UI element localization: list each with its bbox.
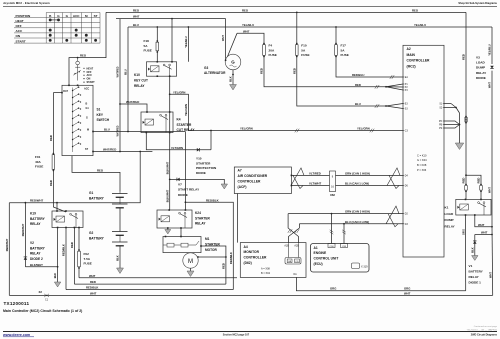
svg-text:M1: M1 bbox=[205, 237, 210, 241]
svg-text:CONTROLLER: CONTROLLER bbox=[238, 180, 262, 184]
svg-text:RED/WHT: RED/WHT bbox=[30, 199, 44, 203]
svg-text:DUMP: DUMP bbox=[445, 218, 454, 222]
K24 ground bbox=[167, 228, 169, 230]
svg-text:PB: PB bbox=[439, 125, 443, 127]
svg-text:G2: G2 bbox=[89, 231, 93, 235]
svg-text:DIODE 2: DIODE 2 bbox=[30, 257, 43, 261]
A2 ground bbox=[455, 143, 464, 150]
wire RED drop to key switch rotary bbox=[69, 12, 106, 85]
svg-text:DIODE 1: DIODE 1 bbox=[469, 281, 482, 285]
svg-text:BATTERY: BATTERY bbox=[89, 236, 105, 240]
svg-text:V7: V7 bbox=[178, 183, 182, 187]
svg-text:WHT/RED: WHT/RED bbox=[118, 66, 120, 77]
svg-text:FUSE: FUSE bbox=[269, 53, 277, 57]
svg-text:STARTER: STARTER bbox=[196, 161, 211, 165]
svg-text:ON: ON bbox=[16, 34, 21, 38]
A4 internal connector bbox=[288, 244, 290, 258]
wire RED/BLK from K19 down bbox=[65, 228, 67, 290]
svg-text:WHT: WHT bbox=[221, 35, 225, 41]
wire BLU from F10 fan to pins E3 S3 bbox=[297, 57, 386, 107]
svg-text:VLT/RED: VLT/RED bbox=[309, 171, 321, 175]
svg-text:RELAY: RELAY bbox=[30, 222, 41, 226]
svg-text:AIR CONDITIONER: AIR CONDITIONER bbox=[238, 174, 268, 178]
svg-text:ALTERNATOR: ALTERNATOR bbox=[204, 71, 226, 75]
svg-text:RED: RED bbox=[222, 263, 226, 269]
svg-text:WHT: WHT bbox=[133, 15, 140, 19]
wire WHT/RED junction to battery relay drop bbox=[139, 151, 141, 153]
svg-text:BAT: BAT bbox=[63, 90, 68, 93]
wire WHT to alternator bbox=[225, 19, 227, 61]
svg-text:TX1200011: TX1200011 bbox=[4, 301, 30, 306]
svg-text:B = X02: B = X02 bbox=[261, 272, 271, 275]
svg-text:PO: PO bbox=[439, 121, 443, 123]
svg-text:YEL/GRN: YEL/GRN bbox=[357, 127, 370, 131]
svg-text:DIODE: DIODE bbox=[476, 76, 486, 80]
battery relay diode V2 bbox=[24, 203, 26, 267]
wire RED top bus bbox=[106, 11, 466, 13]
key cut relay K10 box bbox=[147, 62, 177, 76]
svg-text:YEL/BLU: YEL/BLU bbox=[414, 23, 426, 27]
wire YEL/BLU drop to F17 bbox=[335, 27, 337, 44]
svg-text:RED/BLK: RED/BLK bbox=[62, 244, 66, 256]
svg-text:YEL/GRN: YEL/GRN bbox=[240, 127, 253, 131]
svg-text:Main Controller (MC2) Circuit: Main Controller (MC2) Circuit Schematic … bbox=[3, 309, 82, 313]
wire RED right vertical to K1 bbox=[465, 12, 467, 184]
svg-text:G: G bbox=[231, 60, 235, 65]
svg-text:START RELAY: START RELAY bbox=[178, 188, 200, 192]
svg-text:MAIN: MAIN bbox=[407, 53, 416, 57]
wire RED from F4 fan to pins P1 P2 P3 bbox=[264, 57, 386, 87]
svg-text:ST: ST bbox=[85, 148, 89, 151]
svg-text:BLU: BLU bbox=[355, 102, 361, 106]
table contact dots START row bbox=[49, 39, 52, 42]
svg-text:BLK/WHT: BLK/WHT bbox=[165, 189, 169, 202]
wire RED/BLU from F17 to pin EA bbox=[336, 57, 403, 78]
wire WHT drop to starter cut relay coil bbox=[119, 19, 121, 152]
svg-text:FUSE: FUSE bbox=[84, 262, 92, 266]
V7 ground bbox=[221, 184, 228, 189]
load dump relay diode V3 bbox=[490, 66, 494, 69]
svg-text:K10: K10 bbox=[134, 73, 140, 77]
starter motor M1 armature bbox=[183, 253, 198, 268]
K19 ground column bbox=[57, 228, 59, 283]
svg-text:EA: EA bbox=[405, 76, 409, 79]
connector X62 bbox=[330, 171, 336, 192]
svg-text:ORG: ORG bbox=[404, 287, 410, 291]
svg-text:Joystick MC2 - Electrical Syst: Joystick MC2 - Electrical System bbox=[3, 1, 50, 5]
A2 right pins PO PB PS merge to ground bbox=[444, 121, 460, 125]
wire GRN CAN3 HIGH bbox=[288, 213, 403, 215]
svg-text:(ECU): (ECU) bbox=[314, 262, 323, 266]
wire WHT exciter bus bbox=[116, 18, 226, 20]
A7 pins to X62 bbox=[291, 175, 293, 177]
svg-text:RED/BLK: RED/BLK bbox=[229, 252, 233, 264]
svg-text:WHT: WHT bbox=[488, 272, 492, 278]
svg-text:WHT: WHT bbox=[488, 187, 492, 193]
svg-text:LOAD: LOAD bbox=[445, 212, 455, 216]
svg-text:BLU: BLU bbox=[124, 69, 128, 75]
fuse F4 bbox=[263, 43, 265, 45]
wire BLK/WHT from V2 to ground column bbox=[25, 266, 57, 268]
page header rule bbox=[3, 5, 497, 7]
svg-text:G3: G3 bbox=[204, 66, 208, 70]
svg-text:B: B bbox=[86, 103, 88, 106]
footer rule bbox=[3, 331, 497, 333]
wire WHT right vertical to bus bbox=[491, 227, 494, 296]
wire BLU drop to F18 bbox=[156, 27, 158, 41]
svg-text:ORG: ORG bbox=[461, 229, 465, 235]
svg-text:RELAY: RELAY bbox=[30, 252, 41, 256]
svg-text:Continued on next page: Continued on next page bbox=[474, 325, 498, 328]
svg-text:BLU (CAN 3 LOW): BLU (CAN 3 LOW) bbox=[345, 220, 369, 224]
svg-text:RED: RED bbox=[49, 135, 53, 141]
svg-text:WHT/RED: WHT/RED bbox=[126, 100, 139, 104]
wire GRN CAN1 HIGH bbox=[336, 174, 404, 176]
fuse F01 bbox=[53, 153, 55, 155]
table contact dots ON row bbox=[49, 34, 52, 37]
svg-text:A7: A7 bbox=[238, 168, 242, 172]
svg-text:TX1200011 — UN — 19APR10: TX1200011 — UN — 19APR10 bbox=[467, 328, 498, 331]
svg-text:F4: F4 bbox=[269, 44, 273, 48]
wire BLU CAN1 LOW bbox=[336, 185, 404, 187]
K1 feed connector pins bbox=[465, 184, 467, 186]
table contact dots HEAT row bbox=[50, 19, 58, 21]
svg-text:CD: CD bbox=[295, 261, 299, 263]
wire WHT from V3 down bbox=[491, 71, 493, 227]
svg-text:ST: ST bbox=[94, 14, 98, 18]
svg-text:RED: RED bbox=[242, 8, 248, 12]
svg-text:BATTERY: BATTERY bbox=[30, 217, 46, 221]
svg-text:WHT: WHT bbox=[488, 82, 492, 88]
svg-text:WHT: WHT bbox=[481, 231, 488, 235]
svg-text:RED: RED bbox=[90, 280, 96, 284]
svg-text:V2: V2 bbox=[30, 241, 34, 245]
svg-text:RED: RED bbox=[49, 180, 53, 186]
svg-text:RED: RED bbox=[355, 83, 361, 87]
svg-text:DA: DA bbox=[294, 273, 298, 276]
svg-text:M: M bbox=[188, 259, 193, 265]
svg-text:BLU (CAN 1 LOW): BLU (CAN 1 LOW) bbox=[345, 182, 369, 186]
S1 BLU output wire bbox=[92, 131, 94, 133]
svg-text:BLK: BLK bbox=[229, 76, 233, 82]
svg-text:B = K08: B = K08 bbox=[417, 163, 427, 167]
svg-text:K19: K19 bbox=[30, 212, 36, 216]
svg-text:ACC: ACC bbox=[16, 29, 23, 33]
wire WHT drop to K10 bbox=[171, 19, 173, 62]
wire RED drop to F10 bbox=[296, 12, 298, 43]
svg-text:DIODE: DIODE bbox=[178, 193, 188, 197]
svg-text:ACC: ACC bbox=[73, 14, 80, 18]
wire F18 to K10 bbox=[156, 52, 158, 62]
svg-text:K1: K1 bbox=[445, 206, 449, 210]
svg-text:OFF: OFF bbox=[16, 24, 22, 28]
svg-text:STARTER: STARTER bbox=[177, 123, 193, 127]
svg-text:M: M bbox=[85, 14, 88, 18]
svg-text:DIODE: DIODE bbox=[196, 171, 206, 175]
starter motor M1 solenoid box bbox=[163, 237, 201, 253]
monitor controller A4 box bbox=[240, 243, 306, 278]
wire RED/WHT from S1 to battery relay bbox=[9, 152, 140, 203]
svg-text:YEL/BLU: YEL/BLU bbox=[184, 36, 188, 48]
wire between batteries bbox=[119, 208, 121, 232]
svg-text:RELAY: RELAY bbox=[469, 275, 480, 279]
wire BLU drop bbox=[127, 27, 129, 132]
svg-text:Section MC2 page 107: Section MC2 page 107 bbox=[223, 333, 250, 336]
svg-text:F18: F18 bbox=[144, 39, 150, 43]
wire RED/BLK bus bbox=[66, 289, 233, 291]
svg-text:X62: X62 bbox=[330, 193, 335, 197]
svg-text:G: G bbox=[86, 116, 88, 119]
wire from K19 through F02 bbox=[78, 228, 80, 251]
svg-text:CONTROLLER: CONTROLLER bbox=[244, 256, 268, 260]
key switch position table bbox=[14, 13, 100, 44]
wire RED from S1 B to battery G1 bbox=[72, 156, 120, 192]
svg-text:POSITION: POSITION bbox=[16, 14, 32, 18]
wire YEL/BLU from K10 to bus bbox=[187, 27, 189, 62]
svg-text:RELAY: RELAY bbox=[195, 222, 206, 226]
svg-text:WHT: WHT bbox=[478, 223, 485, 227]
table contact dots ACC row bbox=[49, 29, 52, 32]
wire WHT bus lower with X2 bbox=[9, 294, 492, 296]
svg-text:www.deere.com: www.deere.com bbox=[2, 333, 30, 337]
A7 left drop wire bbox=[237, 194, 239, 243]
CAN3 drop to monitor controller crossing bbox=[288, 214, 298, 243]
svg-text:C = K10: C = K10 bbox=[417, 153, 427, 157]
alternator G3 bbox=[225, 54, 241, 70]
svg-text:RELAY: RELAY bbox=[134, 84, 145, 88]
wire RED/WHT left drop to WHT bus bbox=[8, 203, 10, 296]
wire RED/BLK from K24 area bbox=[185, 202, 233, 289]
svg-text:YEL/GRN: YEL/GRN bbox=[173, 90, 185, 94]
svg-text:FUSE: FUSE bbox=[301, 53, 309, 57]
svg-text:BLK/WHT: BLK/WHT bbox=[30, 263, 43, 267]
svg-text:RED: RED bbox=[462, 54, 466, 60]
G2 ground wire BLK bbox=[119, 246, 121, 268]
svg-text:YEL/BLU: YEL/BLU bbox=[488, 44, 492, 56]
svg-text:20A: 20A bbox=[269, 48, 275, 52]
svg-text:X 319: X 319 bbox=[361, 266, 368, 269]
svg-text:V1: V1 bbox=[469, 264, 473, 268]
wire K24 to starter solenoid bbox=[180, 228, 182, 237]
wire ORG bus bbox=[296, 277, 465, 290]
air conditioner controller A7 box bbox=[234, 167, 291, 194]
wire RED from S1 to F01 fuse bbox=[52, 93, 54, 154]
svg-text:HEAT: HEAT bbox=[16, 19, 24, 23]
svg-text:RED/WHT: RED/WHT bbox=[5, 238, 9, 251]
load dump relay K1 box bbox=[456, 199, 491, 215]
svg-text:RED/BLK: RED/BLK bbox=[86, 286, 98, 290]
wire BLU / YEL-BLU bus bbox=[128, 26, 492, 28]
wire BLU drop to K24 bbox=[184, 132, 186, 211]
svg-text:X2: X2 bbox=[39, 290, 43, 294]
svg-text:F10: F10 bbox=[301, 44, 307, 48]
svg-text:RELAY: RELAY bbox=[476, 71, 487, 75]
svg-text:G = K04: G = K04 bbox=[417, 158, 427, 162]
svg-text:WHT: WHT bbox=[404, 291, 411, 295]
K19 coil feed stub bbox=[56, 203, 58, 211]
A1 internal connector bbox=[352, 263, 360, 269]
svg-text:(D62): (D62) bbox=[244, 261, 252, 265]
M1 ground bbox=[190, 268, 192, 271]
key switch rotary symbol bbox=[76, 61, 80, 65]
wire WHT/RED to K4 coil bbox=[120, 104, 147, 112]
svg-text:WHT: WHT bbox=[89, 274, 96, 278]
wire RED solenoid B+ to bus bbox=[201, 246, 226, 284]
wire YEL/GRN from K10 to main controller C3 bbox=[170, 94, 403, 130]
svg-text:ACC: ACC bbox=[84, 88, 89, 91]
svg-text:CUT RELAY: CUT RELAY bbox=[177, 128, 196, 132]
A1 top pin connectors bbox=[328, 244, 335, 248]
svg-text:RED: RED bbox=[292, 68, 296, 74]
svg-text:SWITCH: SWITCH bbox=[97, 118, 110, 122]
svg-text:F01: F01 bbox=[35, 155, 41, 159]
svg-text:MOTOR: MOTOR bbox=[205, 248, 218, 252]
svg-text:F17: F17 bbox=[341, 44, 347, 48]
svg-text:7.5A: 7.5A bbox=[84, 257, 91, 261]
svg-text:KEY CUT: KEY CUT bbox=[134, 79, 148, 83]
wire WHT bus upper bbox=[79, 277, 237, 279]
wire WHT V1 row bbox=[475, 234, 492, 236]
svg-text:(ACF): (ACF) bbox=[238, 185, 247, 189]
fuse F10 bbox=[296, 43, 298, 45]
svg-text:KEY: KEY bbox=[97, 113, 104, 117]
svg-text:ENGINE: ENGINE bbox=[314, 251, 327, 255]
wire K10 contact output down the relay column bbox=[169, 76, 171, 210]
svg-text:RELAY: RELAY bbox=[445, 224, 456, 228]
wire WHT K1 to right vertical bbox=[475, 215, 492, 227]
svg-text:BLK: BLK bbox=[470, 247, 474, 253]
A2 right pins S1 S2 merge wire bbox=[444, 103, 451, 105]
svg-text:RED: RED bbox=[80, 54, 86, 58]
svg-text:FUSE: FUSE bbox=[35, 165, 43, 169]
svg-text:RED: RED bbox=[260, 68, 264, 74]
wire RED from F01 to battery relay bbox=[53, 171, 66, 213]
battery relay K19 box bbox=[52, 211, 83, 228]
svg-text:ORG: ORG bbox=[330, 287, 336, 291]
svg-text:BATTERY: BATTERY bbox=[30, 246, 46, 250]
svg-text:CONTROLLER: CONTROLLER bbox=[407, 59, 431, 63]
key switch S1 box bbox=[62, 85, 93, 155]
svg-text:40A: 40A bbox=[35, 160, 41, 164]
svg-text:START: START bbox=[87, 81, 96, 84]
svg-text:BLU: BLU bbox=[104, 128, 110, 132]
svg-text:S1: S1 bbox=[97, 108, 101, 112]
rotary position dots and labels bbox=[83, 68, 84, 69]
svg-text:RED/BLK: RED/BLK bbox=[206, 198, 220, 202]
svg-text:GRN (CAN 1 HIGH): GRN (CAN 1 HIGH) bbox=[345, 171, 370, 175]
svg-text:A = X08: A = X08 bbox=[261, 268, 270, 271]
alternator output diagonal to WHT bus bbox=[228, 33, 238, 56]
svg-text:BATTERY: BATTERY bbox=[89, 196, 105, 200]
engine control unit A1 box bbox=[311, 244, 370, 273]
starter cut relay K4 box bbox=[141, 112, 173, 133]
wire ORG from K1 to bus bbox=[465, 215, 467, 291]
svg-text:STARTER: STARTER bbox=[195, 216, 211, 220]
svg-text:BLK/WHT: BLK/WHT bbox=[165, 161, 169, 174]
svg-text:BLU: BLU bbox=[133, 23, 139, 27]
svg-text:K24: K24 bbox=[195, 211, 201, 215]
svg-text:M: M bbox=[87, 129, 89, 132]
svg-text:RED: RED bbox=[477, 178, 481, 184]
svg-text:RED/BLU: RED/BLU bbox=[352, 73, 364, 77]
svg-text:RED/WHT: RED/WHT bbox=[21, 223, 25, 236]
svg-text:RED: RED bbox=[70, 242, 74, 248]
svg-text:V3: V3 bbox=[476, 56, 480, 60]
A2 left pin names and stubs bbox=[403, 76, 404, 78]
S1 top pin bbox=[68, 85, 70, 87]
svg-text:2WD Circuit Diagrams: 2WD Circuit Diagrams bbox=[471, 333, 498, 336]
svg-text:WHT/RED: WHT/RED bbox=[103, 148, 116, 152]
svg-text:GB: GB bbox=[288, 261, 292, 263]
svg-text:LOAD: LOAD bbox=[476, 61, 486, 65]
svg-text:A4: A4 bbox=[244, 245, 248, 249]
svg-text:BLK: BLK bbox=[53, 273, 57, 279]
svg-text:(MC2): (MC2) bbox=[407, 64, 416, 68]
svg-text:WHT: WHT bbox=[243, 29, 250, 33]
svg-text:BLK: BLK bbox=[116, 255, 120, 261]
svg-text:G1: G1 bbox=[89, 191, 93, 195]
alternator ground bbox=[232, 70, 234, 85]
svg-text:RED: RED bbox=[97, 168, 103, 172]
wire RED branch to K1 second pin bbox=[466, 175, 481, 184]
fuse F17 bbox=[335, 43, 337, 45]
svg-text:Shop 9A Sub-System Diagrams: Shop 9A Sub-System Diagrams bbox=[458, 1, 497, 5]
svg-text:VLT/GRN: VLT/GRN bbox=[171, 146, 183, 150]
wire YEL/BLU to V3 diode bbox=[491, 27, 493, 64]
wire RED bus bbox=[74, 283, 226, 285]
svg-text:CONTROL UNIT: CONTROL UNIT bbox=[314, 257, 339, 261]
svg-text:WHT/RED: WHT/RED bbox=[118, 125, 120, 136]
svg-text:DUMP: DUMP bbox=[476, 66, 485, 70]
svg-text:MONITOR: MONITOR bbox=[244, 250, 260, 254]
svg-text:Y10: Y10 bbox=[196, 157, 202, 161]
S1 WHT/RED output wire bbox=[92, 151, 94, 153]
battery relay diode V1 bbox=[474, 235, 476, 256]
wire Y10 up to YEL/GRN bbox=[210, 131, 212, 150]
svg-text:BATTERY: BATTERY bbox=[469, 270, 484, 274]
wire WHT from alternator to F4 bbox=[237, 33, 264, 43]
starter protection diode Y10 bbox=[197, 148, 200, 152]
svg-text:YEL/BLU: YEL/BLU bbox=[242, 23, 254, 27]
svg-text:VLT/WHT: VLT/WHT bbox=[309, 182, 322, 186]
svg-text:A2: A2 bbox=[407, 47, 411, 51]
connector on RED vertical bbox=[465, 116, 467, 118]
svg-text:PROTECTION: PROTECTION bbox=[196, 166, 217, 170]
svg-text:P = X06: P = X06 bbox=[417, 168, 427, 172]
A2 right pin names and stubs bbox=[443, 103, 444, 105]
fuse F02 bbox=[78, 249, 80, 251]
svg-text:A1: A1 bbox=[314, 246, 318, 250]
svg-text:RED: RED bbox=[133, 8, 139, 12]
svg-text:GRN (CAN 3 HIGH): GRN (CAN 3 HIGH) bbox=[345, 210, 370, 214]
svg-text:RED: RED bbox=[462, 178, 466, 184]
S1 internal ladder bbox=[72, 88, 74, 153]
main controller A2 box bbox=[403, 45, 444, 257]
S1 BAT pin wire to F01 bbox=[61, 92, 63, 94]
svg-text:YEL/GRN: YEL/GRN bbox=[184, 104, 188, 116]
fuse F18 bbox=[156, 40, 158, 42]
svg-text:FUSE: FUSE bbox=[144, 49, 152, 53]
svg-text:FUSE: FUSE bbox=[341, 53, 349, 57]
CAN3 drops to ECU bbox=[331, 214, 333, 244]
wire VLT/GRN from K4 pin to Y10 bbox=[146, 133, 211, 150]
svg-text:K4: K4 bbox=[177, 118, 181, 122]
svg-text:START: START bbox=[16, 39, 26, 43]
svg-text:RED: RED bbox=[412, 8, 418, 12]
wire BLU CAN3 LOW bbox=[299, 223, 403, 225]
svg-text:F02: F02 bbox=[84, 252, 90, 256]
wire RED from K19 to RED bus bbox=[73, 228, 75, 285]
